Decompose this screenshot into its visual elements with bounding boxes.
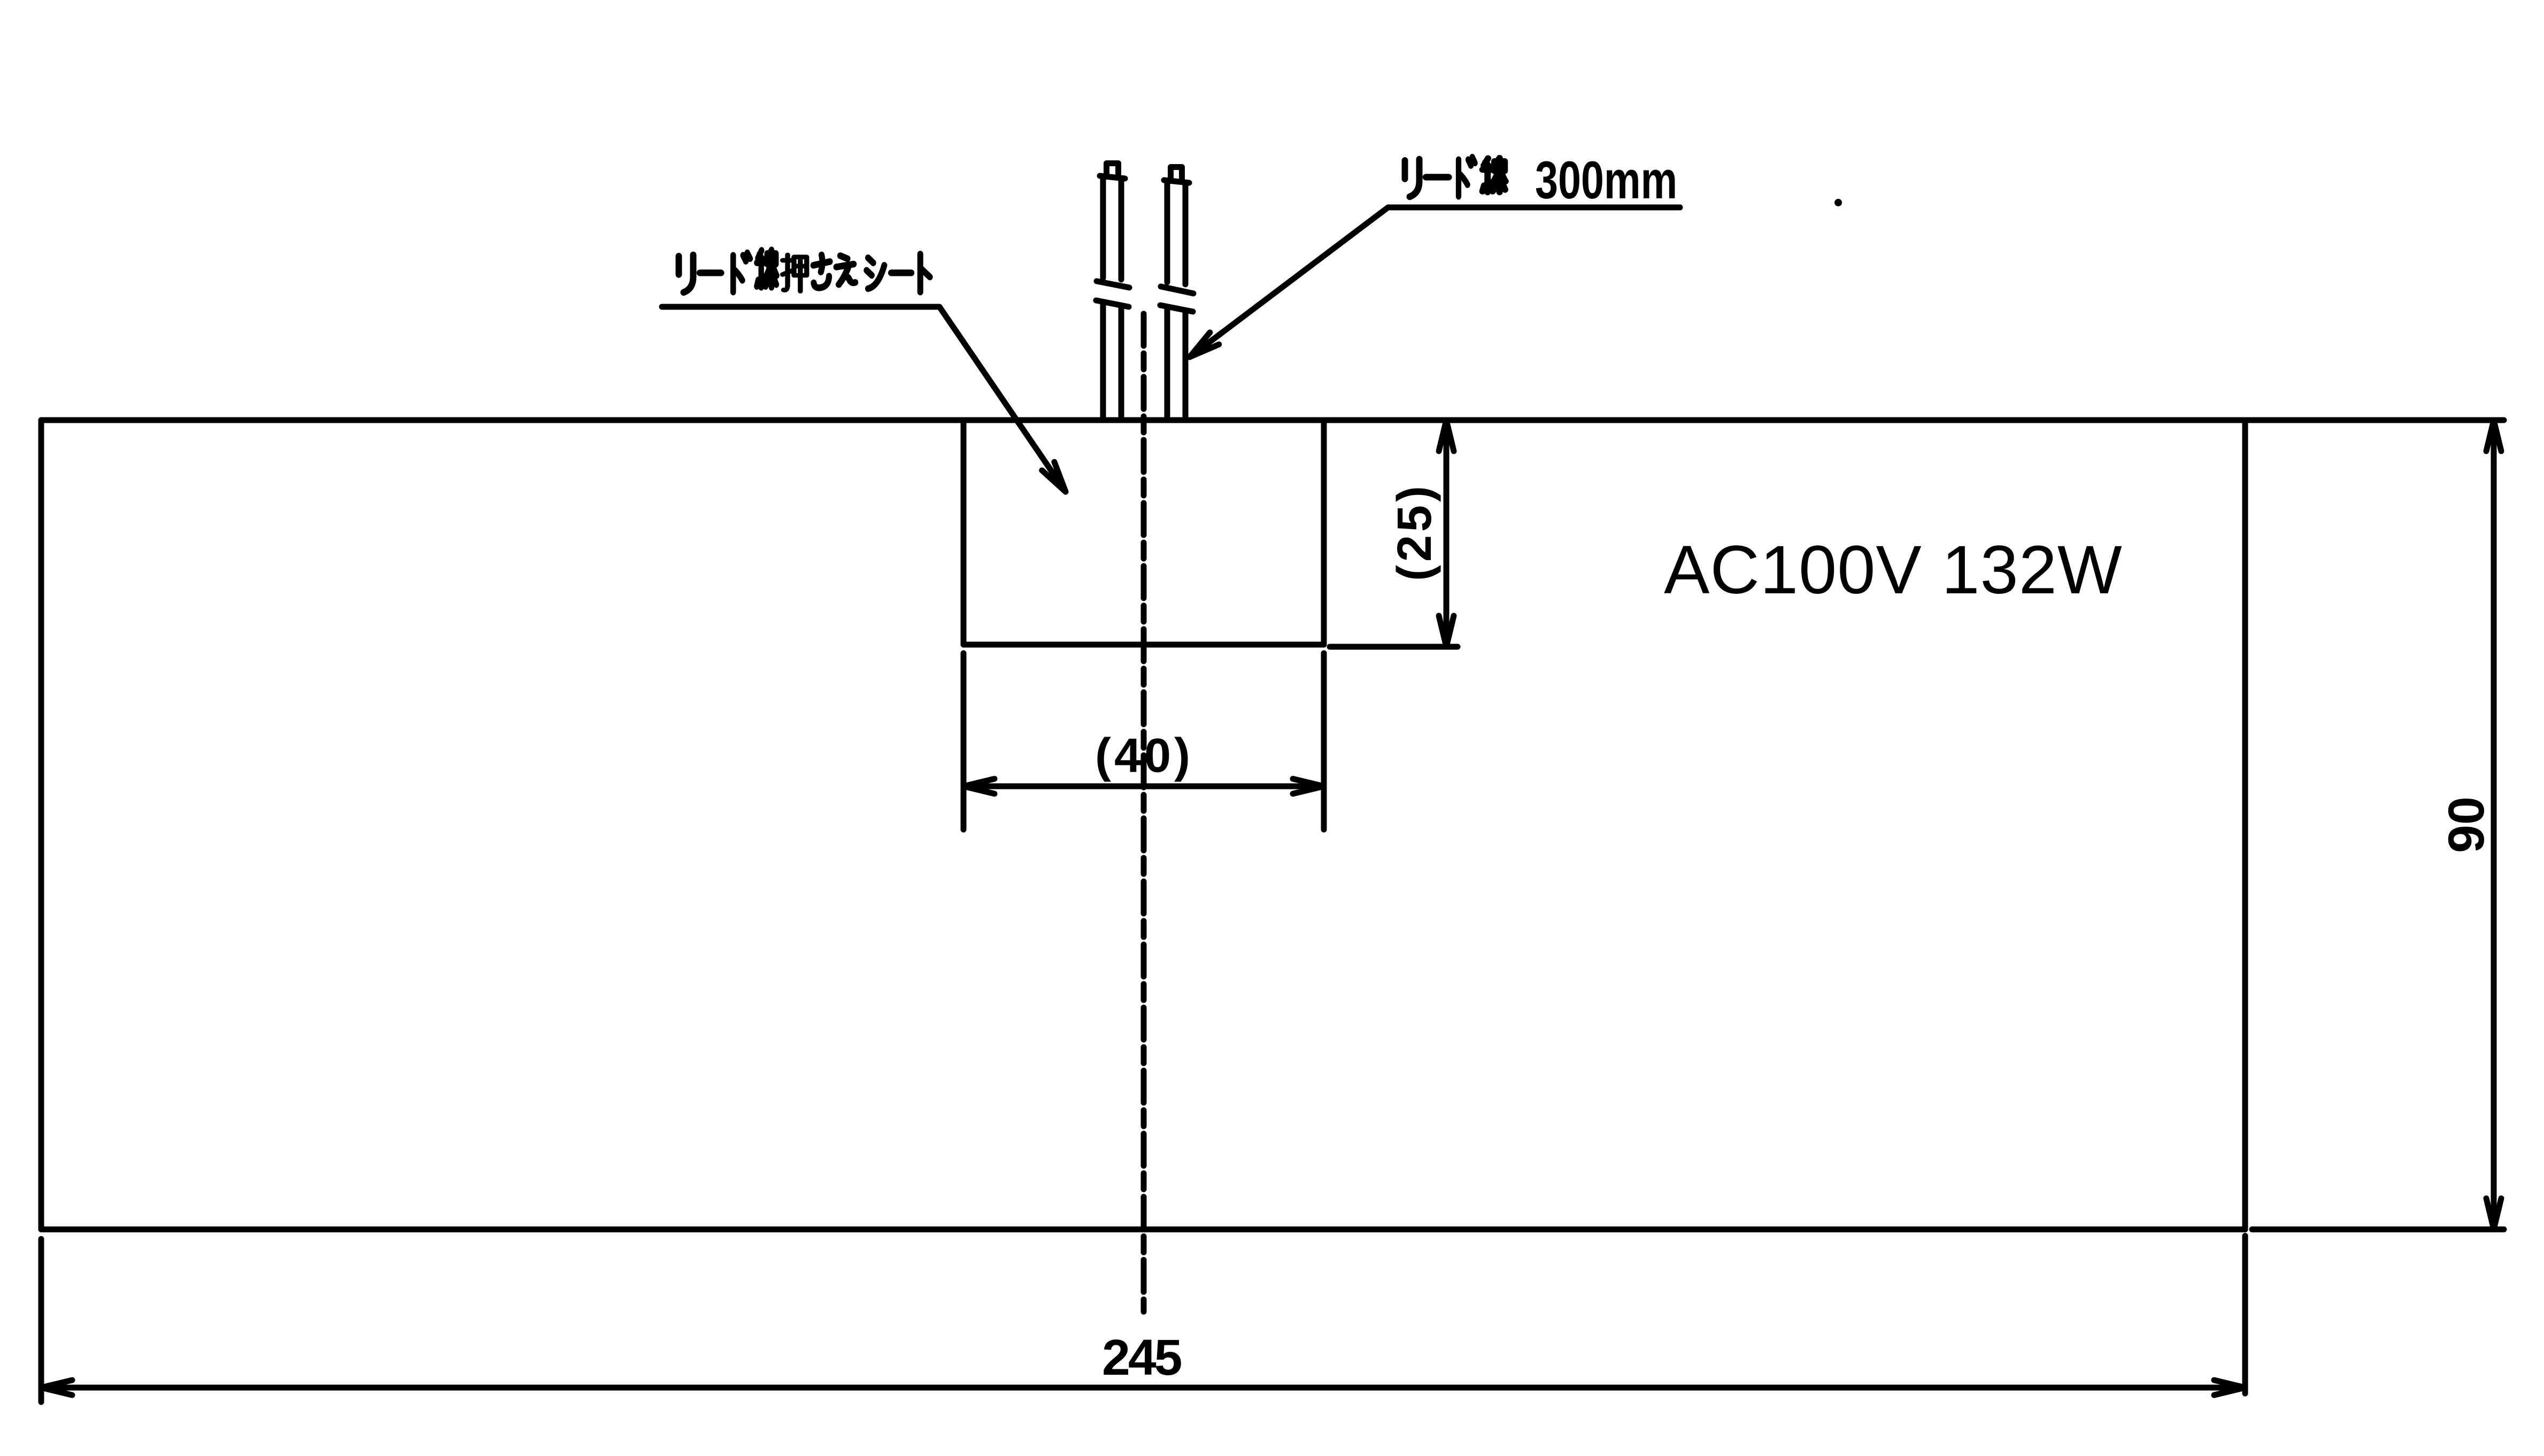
- svg-text:(40): (40): [1095, 729, 1193, 783]
- svg-text:(25): (25): [1388, 483, 1441, 581]
- svg-text:90: 90: [2438, 796, 2495, 853]
- svg-text:300mm: 300mm: [1535, 151, 1677, 210]
- svg-text:245: 245: [1102, 1329, 1182, 1386]
- svg-text:AC100V 132W: AC100V 132W: [1664, 532, 2123, 608]
